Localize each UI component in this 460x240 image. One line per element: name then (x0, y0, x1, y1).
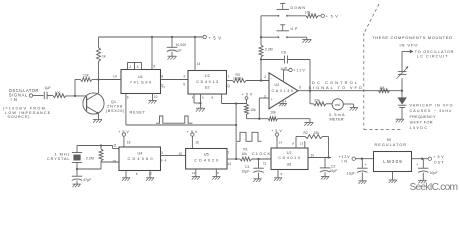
svg-text:CRYSTAL: CRYSTAL (47, 157, 70, 161)
ground U5 b (212, 177, 220, 180)
svg-text:LOW IMPEDANCE: LOW IMPEDANCE (5, 111, 50, 115)
wire crystal top (77, 145, 113, 147)
op-amp U3 CA3140 (264, 73, 298, 109)
svg-text:1: 1 (228, 75, 230, 79)
svg-text:4: 4 (165, 159, 167, 163)
svg-text:(≈100mV FROM: (≈100mV FROM (3, 106, 45, 110)
svg-text:10µF: 10µF (330, 169, 338, 173)
input note text (3, 106, 51, 119)
wire node to R3 line (260, 60, 262, 81)
svg-text:0.5mA: 0.5mA (329, 113, 345, 117)
node C8 left (260, 58, 262, 60)
svg-text:1µF: 1µF (45, 86, 51, 90)
IC U6 CD4013 (271, 148, 308, 170)
svg-text:OUT: OUT (434, 161, 445, 165)
pushbutton UP (261, 25, 298, 38)
svg-text:14: 14 (113, 74, 117, 78)
svg-text:1M: 1M (379, 86, 384, 90)
ground U1 pin10 (148, 101, 156, 104)
svg-text:C: C (164, 87, 166, 89)
node clock join (235, 158, 237, 160)
svg-text:Q: Q (227, 84, 230, 88)
IC U5 CD4020 (186, 149, 227, 170)
svg-text:SHIFT FOR: SHIFT FOR (410, 120, 433, 124)
svg-text:+12V: +12V (293, 69, 305, 73)
svg-text:3: 3 (161, 151, 163, 155)
terminal +5V bias (242, 92, 253, 99)
terminal +5V U4 (118, 130, 130, 147)
dc control text (309, 80, 363, 90)
node cap out (421, 158, 423, 160)
svg-text:16: 16 (195, 141, 199, 145)
U1 reset label (130, 110, 146, 114)
transistor Q1 (83, 93, 104, 114)
svg-text:C1: C1 (245, 165, 249, 169)
U4 pin labels left (112, 144, 116, 164)
resistor R1 10k (240, 147, 271, 161)
svg-text:+5V: +5V (434, 155, 445, 159)
node up-row (260, 36, 262, 38)
U2 pin1 output wire (227, 75, 233, 89)
resistor 12k base bias (75, 73, 99, 96)
svg-text:1 MHz: 1 MHz (55, 153, 70, 157)
U5 bottom stubs (192, 169, 219, 176)
IC U2 CD4013 (188, 71, 227, 95)
IC U4 CD4060 (119, 147, 161, 171)
ground bypass cap (168, 56, 177, 59)
svg-text:µF: µF (178, 48, 182, 52)
input terminal (29, 94, 32, 97)
ground U5 a (192, 177, 200, 180)
svg-text:10VDC: 10VDC (410, 126, 428, 130)
watermark (410, 182, 459, 193)
node C2 (327, 156, 329, 158)
svg-text:100M: 100M (233, 77, 242, 81)
wire crystal bottom (77, 168, 101, 170)
svg-text:11: 11 (192, 171, 196, 175)
resistor 1M (379, 86, 390, 93)
wire varicap vertical (401, 78, 403, 90)
vfo note text (372, 35, 452, 47)
ground C1 (253, 179, 261, 182)
svg-text:U5: U5 (204, 152, 209, 156)
svg-text:VARICAP IN VFO: VARICAP IN VFO (410, 103, 453, 107)
resistor 10k down (305, 10, 321, 17)
oscillator input text (9, 88, 39, 102)
svg-text:−: − (271, 77, 273, 81)
ground reg-in cap (358, 181, 366, 184)
wire U4 pin10 (101, 161, 119, 163)
svg-text:6: 6 (202, 95, 204, 99)
svg-text:REGULATOR: REGULATOR (375, 143, 407, 147)
U1 pin 14 input wire (99, 74, 122, 79)
svg-text:11: 11 (113, 144, 117, 148)
svg-text:SIGNAL TO VFO: SIGNAL TO VFO (309, 85, 363, 90)
resistor R2 10k (296, 131, 329, 139)
svg-text:10k: 10k (314, 131, 320, 135)
U1 pin 5 label (153, 65, 155, 69)
capacitor C8 1uF (261, 50, 310, 71)
svg-text:13: 13 (300, 141, 304, 145)
U6 pin 11 label (263, 161, 267, 165)
reset pulse waveform (156, 116, 193, 123)
ground varactor (396, 119, 404, 122)
svg-text:2.2M: 2.2M (86, 156, 94, 160)
Q1 label (106, 100, 125, 113)
svg-text:74LS90: 74LS90 (130, 79, 152, 84)
capacitor C1 10uF (242, 159, 264, 179)
svg-text:47µF: 47µF (83, 178, 91, 182)
svg-text:7: 7 (285, 66, 287, 70)
svg-text:6: 6 (127, 95, 129, 99)
svg-text:22k: 22k (314, 98, 320, 102)
svg-text:METER: METER (330, 118, 344, 122)
U5 output wire (227, 151, 240, 166)
svg-text:2.2M: 2.2M (265, 48, 273, 52)
node 2.2M top (100, 144, 102, 146)
terminal +5V down (321, 14, 338, 19)
wire R to base (66, 95, 87, 97)
svg-text:6: 6 (299, 85, 301, 89)
svg-text:4: 4 (192, 95, 194, 99)
svg-text:10µF: 10µF (347, 172, 355, 176)
wire meter to gnd (343, 104, 353, 107)
node R3 C8 (260, 79, 262, 81)
wire to U4 pin11 (113, 146, 119, 149)
svg-text:5: 5 (183, 83, 185, 87)
op-amp output wire (298, 90, 402, 92)
svg-text:+12V: +12V (339, 155, 351, 159)
svg-text:U3: U3 (275, 83, 280, 87)
svg-text:+5V: +5V (209, 36, 222, 41)
resistor R3 100M (233, 73, 270, 83)
ground U2 (196, 108, 205, 111)
svg-text:2: 2 (130, 65, 132, 69)
+5V rail terminal (203, 35, 221, 40)
svg-text:SeekIC.com: SeekIC.com (410, 182, 459, 193)
U2 pin stub right-bottom (222, 94, 247, 104)
svg-text:1/2: 1/2 (205, 74, 210, 78)
op-amp +12V pin7 (284, 66, 306, 81)
ground U4 b (146, 178, 154, 181)
svg-text:DOWN: DOWN (291, 6, 306, 10)
crystal Y1 1MHz (47, 146, 82, 170)
wire bias mid (247, 118, 269, 120)
resistor 22k (314, 98, 327, 106)
node C1 (257, 158, 259, 160)
svg-text:R1: R1 (243, 147, 247, 151)
wire rail to U1 pin5 (151, 37, 153, 70)
U6 output wire (308, 153, 331, 157)
svg-text:C8: C8 (281, 50, 286, 54)
reset wire (126, 124, 236, 126)
ground up switch (302, 40, 311, 43)
svg-text:9: 9 (161, 159, 163, 163)
node output C8 (309, 90, 311, 92)
svg-text:U1: U1 (138, 75, 143, 79)
capacitor 1uF input (44, 86, 50, 99)
svg-text:8: 8 (217, 171, 219, 175)
arrow to LC (402, 50, 413, 53)
resistor 10k lower bias (268, 111, 310, 121)
svg-text:7: 7 (228, 151, 230, 155)
wire input to C (33, 95, 44, 97)
ground U6 (274, 178, 282, 181)
op-amp pin6 label (299, 85, 301, 89)
svg-text:10: 10 (311, 153, 315, 157)
capacitor C2 10uF (320, 158, 338, 177)
wire R2 down (328, 137, 330, 158)
varactor diode (398, 91, 407, 119)
svg-text:+: + (416, 163, 418, 167)
svg-text:100: 100 (55, 91, 61, 95)
capacitor 47uF (72, 169, 92, 184)
svg-text:10k: 10k (242, 152, 248, 156)
wire down-sw to R (287, 15, 306, 17)
wire C to R (47, 95, 53, 97)
svg-text:8: 8 (212, 95, 214, 99)
op-amp pin4 gnd stem (283, 100, 287, 104)
IC U1 74LS90 (121, 70, 161, 94)
svg-text:+5V: +5V (242, 92, 253, 96)
svg-text:10: 10 (154, 95, 158, 99)
U6 pin8 stub (292, 137, 296, 149)
to oscillator text (415, 50, 454, 59)
svg-text:10k: 10k (270, 111, 276, 115)
svg-text:12k: 12k (83, 73, 89, 77)
node base-bias junction (74, 95, 76, 97)
svg-text:10: 10 (112, 159, 116, 163)
wire bias gnd stem (309, 119, 311, 123)
wire reg gnd (392, 172, 394, 180)
capacitor 10uF reg-out (416, 159, 437, 180)
U1 reset pin 6 stub (126, 94, 129, 126)
clock waveform (237, 132, 262, 141)
svg-text:FREQUENCY: FREQUENCY (410, 115, 437, 119)
resistor 10k upper bias (245, 99, 257, 118)
wire reg out (412, 158, 429, 160)
ground U4 a (122, 178, 130, 181)
svg-text:10,000: 10,000 (176, 43, 187, 47)
node U2 ground stub (199, 102, 201, 104)
svg-text:C2: C2 (331, 165, 335, 169)
svg-text:U6: U6 (287, 163, 292, 167)
svg-text:THESE COMPONENTS MOUNTED: THESE COMPONENTS MOUNTED (372, 35, 452, 40)
svg-text:14: 14 (197, 62, 201, 66)
svg-text:3: 3 (137, 65, 139, 69)
ground bias divider (304, 123, 313, 126)
svg-text:2: 2 (264, 75, 266, 79)
svg-text:10k: 10k (250, 108, 256, 112)
dashed boundary VFO (364, 4, 403, 130)
svg-text:UP: UP (291, 27, 299, 31)
Q1 collector wire (98, 80, 100, 94)
svg-text:8: 8 (161, 75, 163, 79)
capacitor 10000uF bypass (167, 37, 186, 56)
ground 47uF (72, 184, 80, 187)
wire C8 down to output (309, 60, 311, 91)
svg-text:14: 14 (279, 140, 283, 144)
U1 top tab pins 2 3 (128, 63, 142, 70)
svg-text:10k: 10k (305, 10, 311, 14)
resistor 2.2M crystal (86, 146, 103, 170)
ground C2 (321, 176, 329, 179)
ground Q1 emitter (93, 120, 102, 123)
varicap note (410, 103, 453, 130)
svg-text:+5V: +5V (326, 15, 338, 19)
svg-text:8: 8 (292, 141, 294, 145)
node rail cap (171, 36, 173, 38)
svg-text:11: 11 (263, 161, 267, 165)
node rail U1 (151, 36, 153, 38)
terminal +5V out (428, 155, 444, 164)
Q1 emitter wire (98, 114, 100, 120)
node ub2-vert (235, 102, 237, 104)
ground regulator (389, 180, 397, 183)
U6 bottom stub (278, 170, 283, 178)
U1 pin 8 wire to U2 (161, 75, 189, 90)
meter M1 (326, 99, 343, 110)
wire up-sw to gnd (287, 37, 307, 39)
U4 pin3 wire to U5 (161, 151, 186, 163)
node collector (97, 78, 99, 80)
svg-text:+: + (271, 97, 273, 101)
svg-text:14: 14 (227, 162, 231, 166)
svg-text:1/2: 1/2 (286, 151, 291, 155)
svg-text:(BSX20): (BSX20) (106, 109, 125, 113)
regulator title (375, 138, 407, 147)
svg-text:+: + (365, 163, 367, 167)
terminal +5V U6 (271, 129, 282, 148)
resistor 1k collector load (97, 37, 106, 80)
U4 bottom stubs (126, 171, 152, 178)
ground op-amp (279, 103, 287, 106)
IC U7 LM309 (374, 152, 412, 172)
svg-text:LM309: LM309 (383, 159, 402, 164)
wire switch-chain vertical (260, 16, 262, 45)
svg-text:5V: 5V (387, 138, 392, 142)
op-amp pin3 wire (259, 98, 269, 119)
trimmer cap vfo (397, 52, 409, 79)
node reset cross (235, 124, 237, 126)
svg-text:LC CIRCUIT: LC CIRCUIT (417, 55, 448, 59)
svg-text:Q1: Q1 (111, 100, 116, 104)
svg-text:5: 5 (153, 65, 155, 69)
node reset-clock vert top (235, 104, 237, 160)
terminal +12V in (339, 155, 356, 163)
node crystal bottom (76, 168, 78, 170)
node cap in (361, 158, 363, 160)
svg-text:CAUSES ~ 3kHz: CAUSES ~ 3kHz (410, 109, 452, 113)
svg-text:U4: U4 (138, 151, 143, 155)
svg-text:16: 16 (127, 141, 131, 145)
svg-text:R2: R2 (304, 131, 308, 135)
node pin3 bias (258, 118, 260, 120)
svg-text:1k: 1k (102, 55, 106, 59)
capacitor 10uF reg-in (347, 159, 368, 181)
svg-text:10µF: 10µF (430, 171, 438, 175)
node rail U2 (194, 36, 196, 38)
wire U2 gnd stem (200, 103, 202, 108)
svg-text:SOURCE): SOURCE) (7, 115, 30, 119)
svg-text:mA: mA (335, 103, 341, 107)
wire rail to U2 pin14 (195, 37, 200, 71)
svg-text:10: 10 (179, 152, 183, 156)
svg-text:SIGNAL: SIGNAL (9, 92, 28, 97)
svg-text:IN: IN (11, 97, 17, 102)
resistor 100 (53, 91, 66, 98)
ground reg-out cap (418, 180, 426, 183)
U6 pin13 stub (300, 141, 305, 148)
resistor 2.2M integrate (259, 45, 273, 60)
svg-text:TO OSCILLATOR: TO OSCILLATOR (415, 50, 454, 54)
svg-text:3: 3 (183, 75, 185, 79)
U1 pin 10 ground stub (153, 94, 158, 101)
svg-text:IN VFO: IN VFO (400, 42, 418, 47)
svg-text:RESET: RESET (130, 110, 146, 114)
svg-text:IN: IN (342, 160, 348, 164)
svg-text:12: 12 (149, 171, 153, 175)
ground meter (350, 108, 358, 111)
U2 bottom stubs (192, 94, 223, 104)
svg-text:9: 9 (281, 172, 283, 176)
svg-text:U2: U2 (205, 86, 210, 90)
+5V rail wire (99, 36, 204, 38)
svg-text:10µF: 10µF (242, 169, 250, 173)
wire meter branch (310, 91, 314, 104)
pushbutton DOWN (261, 3, 305, 16)
svg-text:8: 8 (136, 172, 138, 176)
node varicap (401, 90, 403, 92)
terminal +5V U5 (187, 130, 199, 149)
wire +12V to reg (355, 158, 373, 160)
meter label (329, 113, 345, 122)
